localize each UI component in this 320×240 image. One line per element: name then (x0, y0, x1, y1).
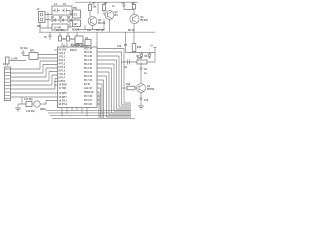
capacitor C11 (18, 97, 33, 104)
wire bus K1 pin2 (11, 65, 58, 74)
ground crystal (15, 104, 21, 111)
wire amp links (75, 2, 110, 32)
svg-text:R5 1k: R5 1k (128, 30, 135, 32)
svg-text:P0.6 33: P0.6 33 (84, 76, 93, 78)
wire bus K1 pin6 (11, 79, 58, 90)
wire bus K1 pin7 (11, 92, 58, 94)
resistor R10 (132, 44, 142, 53)
svg-text:BC179: BC179 (98, 23, 106, 25)
svg-text:ALE 30: ALE 30 (84, 87, 93, 90)
wire bus K1 pin8 (11, 96, 58, 98)
wire cap join (124, 10, 134, 15)
resistor R15 (137, 58, 147, 64)
svg-text:VCC 40: VCC 40 (84, 48, 93, 51)
node right rail (126, 52, 156, 54)
svg-text:3 P1.2: 3 P1.2 (59, 60, 66, 62)
svg-text:P0.1 38: P0.1 38 (84, 56, 93, 58)
wire bus K1 pin3 (11, 68, 58, 77)
box IC2 (73, 8, 81, 18)
wire crystal to U1 (44, 101, 58, 105)
svg-text:LSP 3B1: LSP 3B1 (75, 46, 85, 48)
svg-text:18 XTL2: 18 XTL2 (59, 104, 69, 106)
svg-text:PSEN 29: PSEN 29 (84, 92, 94, 94)
svg-text:EA 31: EA 31 (84, 83, 91, 86)
svg-text:13 INT1: 13 INT1 (59, 97, 68, 99)
svg-text:C3 10u: C3 10u (20, 48, 28, 50)
svg-text:R15: R15 (137, 58, 142, 60)
svg-text:P0.2 37: P0.2 37 (84, 60, 93, 62)
box reset RS1 (75, 36, 85, 48)
wire top rail (39, 31, 155, 33)
svg-text:P0.3 36: P0.3 36 (84, 64, 93, 66)
resonator B1 (26, 101, 47, 113)
svg-text:P0.0 39: P0.0 39 (84, 52, 93, 54)
diode D2 (55, 17, 63, 22)
svg-text:P2.6 27: P2.6 27 (84, 100, 93, 102)
capacitor C14 (20, 48, 29, 56)
resistor R9 top right (132, 2, 136, 9)
svg-text:4MHz: 4MHz (40, 108, 47, 111)
transistor Q3 (105, 11, 118, 20)
svg-text:10u: 10u (87, 30, 92, 32)
stub pin1 (54, 49, 58, 51)
svg-text:C12 30p: C12 30p (26, 111, 35, 113)
connector J1 microphone jack (37, 9, 45, 28)
svg-text:10 RXD: 10 RXD (59, 85, 67, 87)
connector K1 (3, 64, 11, 101)
svg-text:C6 100n: C6 100n (56, 30, 65, 32)
capacitor C5 (44, 32, 52, 40)
wire top supply (75, 1, 138, 3)
svg-text:BC: BC (115, 15, 119, 17)
wire jack links (40, 12, 52, 32)
pin labels U1 left (59, 50, 69, 107)
box RP1 (29, 51, 58, 60)
resistor R8 (103, 2, 116, 15)
svg-text:19 XTL1: 19 XTL1 (59, 101, 69, 103)
resistor R13 (6, 57, 27, 66)
box filter F1 (52, 4, 72, 15)
svg-text:RP1: RP1 (30, 51, 35, 53)
svg-text:R16: R16 (126, 84, 131, 86)
wire Q1 down (133, 24, 135, 44)
transistor Q4 (137, 84, 155, 93)
svg-text:5 P1.4: 5 P1.4 (59, 66, 66, 69)
wire right edge (154, 48, 157, 63)
svg-text:2 P1.1: 2 P1.1 (59, 57, 66, 59)
svg-text:9 RST: 9 RST (59, 81, 66, 83)
wire mid right rail (122, 61, 156, 63)
svg-text:1 P1.0: 1 P1.0 (59, 53, 66, 55)
transistor Q2 (87, 17, 106, 32)
svg-text:P2.5 26: P2.5 26 (84, 104, 93, 106)
resistor R16 base (122, 84, 137, 90)
svg-text:8 P1.7: 8 P1.7 (59, 78, 66, 80)
svg-text:C10: C10 (144, 100, 149, 102)
diode D8 (145, 53, 152, 60)
wire bottom bus (46, 110, 135, 118)
svg-text:C11 30p: C11 30p (24, 99, 33, 101)
svg-text:P0.4 35: P0.4 35 (84, 67, 93, 70)
diode D3 (63, 17, 78, 22)
pins U1 top stubs (62, 32, 97, 47)
capacitor C13 (117, 32, 127, 52)
svg-text:BC559: BC559 (147, 89, 155, 91)
svg-text:12 INT0: 12 INT0 (59, 93, 68, 95)
capacitor C2 (62, 9, 70, 13)
svg-text:P0.7 32: P0.7 32 (84, 80, 93, 82)
IC U1 microcontroller (58, 45, 98, 108)
capacitor C8 (124, 60, 130, 70)
capacitor C10 emitter (140, 92, 149, 106)
svg-text:L1 R4: L1 R4 (11, 58, 18, 61)
wire lower links (40, 10, 73, 28)
svg-text:20 VSS: 20 VSS (59, 50, 67, 52)
capacitor C1 (53, 9, 60, 13)
resistor R11 (59, 32, 68, 41)
wire bus K1 pin1 (11, 61, 58, 69)
svg-text:80C51: 80C51 (70, 50, 77, 52)
svg-text:R17 4k7: R17 4k7 (96, 29, 105, 32)
svg-text:TR1: TR1 (73, 8, 78, 10)
resistor R7 (89, 2, 98, 16)
svg-text:P0.5 34: P0.5 34 (84, 71, 93, 74)
wire bus K1 pin4 (11, 72, 58, 82)
wire bus K1 pin5 (11, 75, 58, 85)
capacitor C9 collector (140, 62, 148, 84)
box reset RS2 (85, 38, 91, 46)
svg-text:P2.7 28: P2.7 28 (84, 96, 93, 98)
ground Q4 emitter (138, 106, 144, 109)
svg-text:BC549: BC549 (141, 19, 149, 22)
diode D1 (50, 17, 55, 22)
box IC3 (72, 20, 81, 32)
stub PSEN (97, 96, 100, 104)
crystal X1 (26, 102, 32, 107)
svg-text:R10: R10 (137, 47, 142, 49)
box filter F2 (52, 24, 68, 30)
svg-text:C13: C13 (117, 46, 122, 48)
svg-text:6 P1.5: 6 P1.5 (59, 71, 66, 73)
capacitor C4 top right (122, 2, 126, 10)
svg-text:11 TXD: 11 TXD (59, 88, 67, 90)
svg-text:4 P1.3: 4 P1.3 (59, 63, 66, 66)
wire U1 right pin buses (97, 49, 131, 104)
diode D7 (137, 53, 144, 60)
stub RST (54, 82, 58, 86)
resistor R12 (67, 32, 76, 41)
svg-text:7 P1.6: 7 P1.6 (59, 74, 66, 76)
pin labels U1 right (84, 48, 94, 107)
transistor Q1 (130, 14, 148, 23)
pins U1 bottom stubs (62, 108, 87, 117)
